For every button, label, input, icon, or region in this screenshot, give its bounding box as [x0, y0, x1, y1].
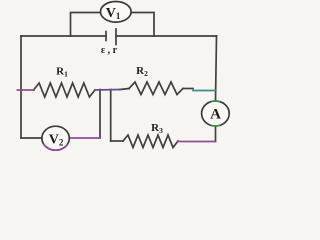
svg-text:ε , r: ε , r: [101, 45, 118, 56]
svg-text:A: A: [210, 107, 221, 123]
